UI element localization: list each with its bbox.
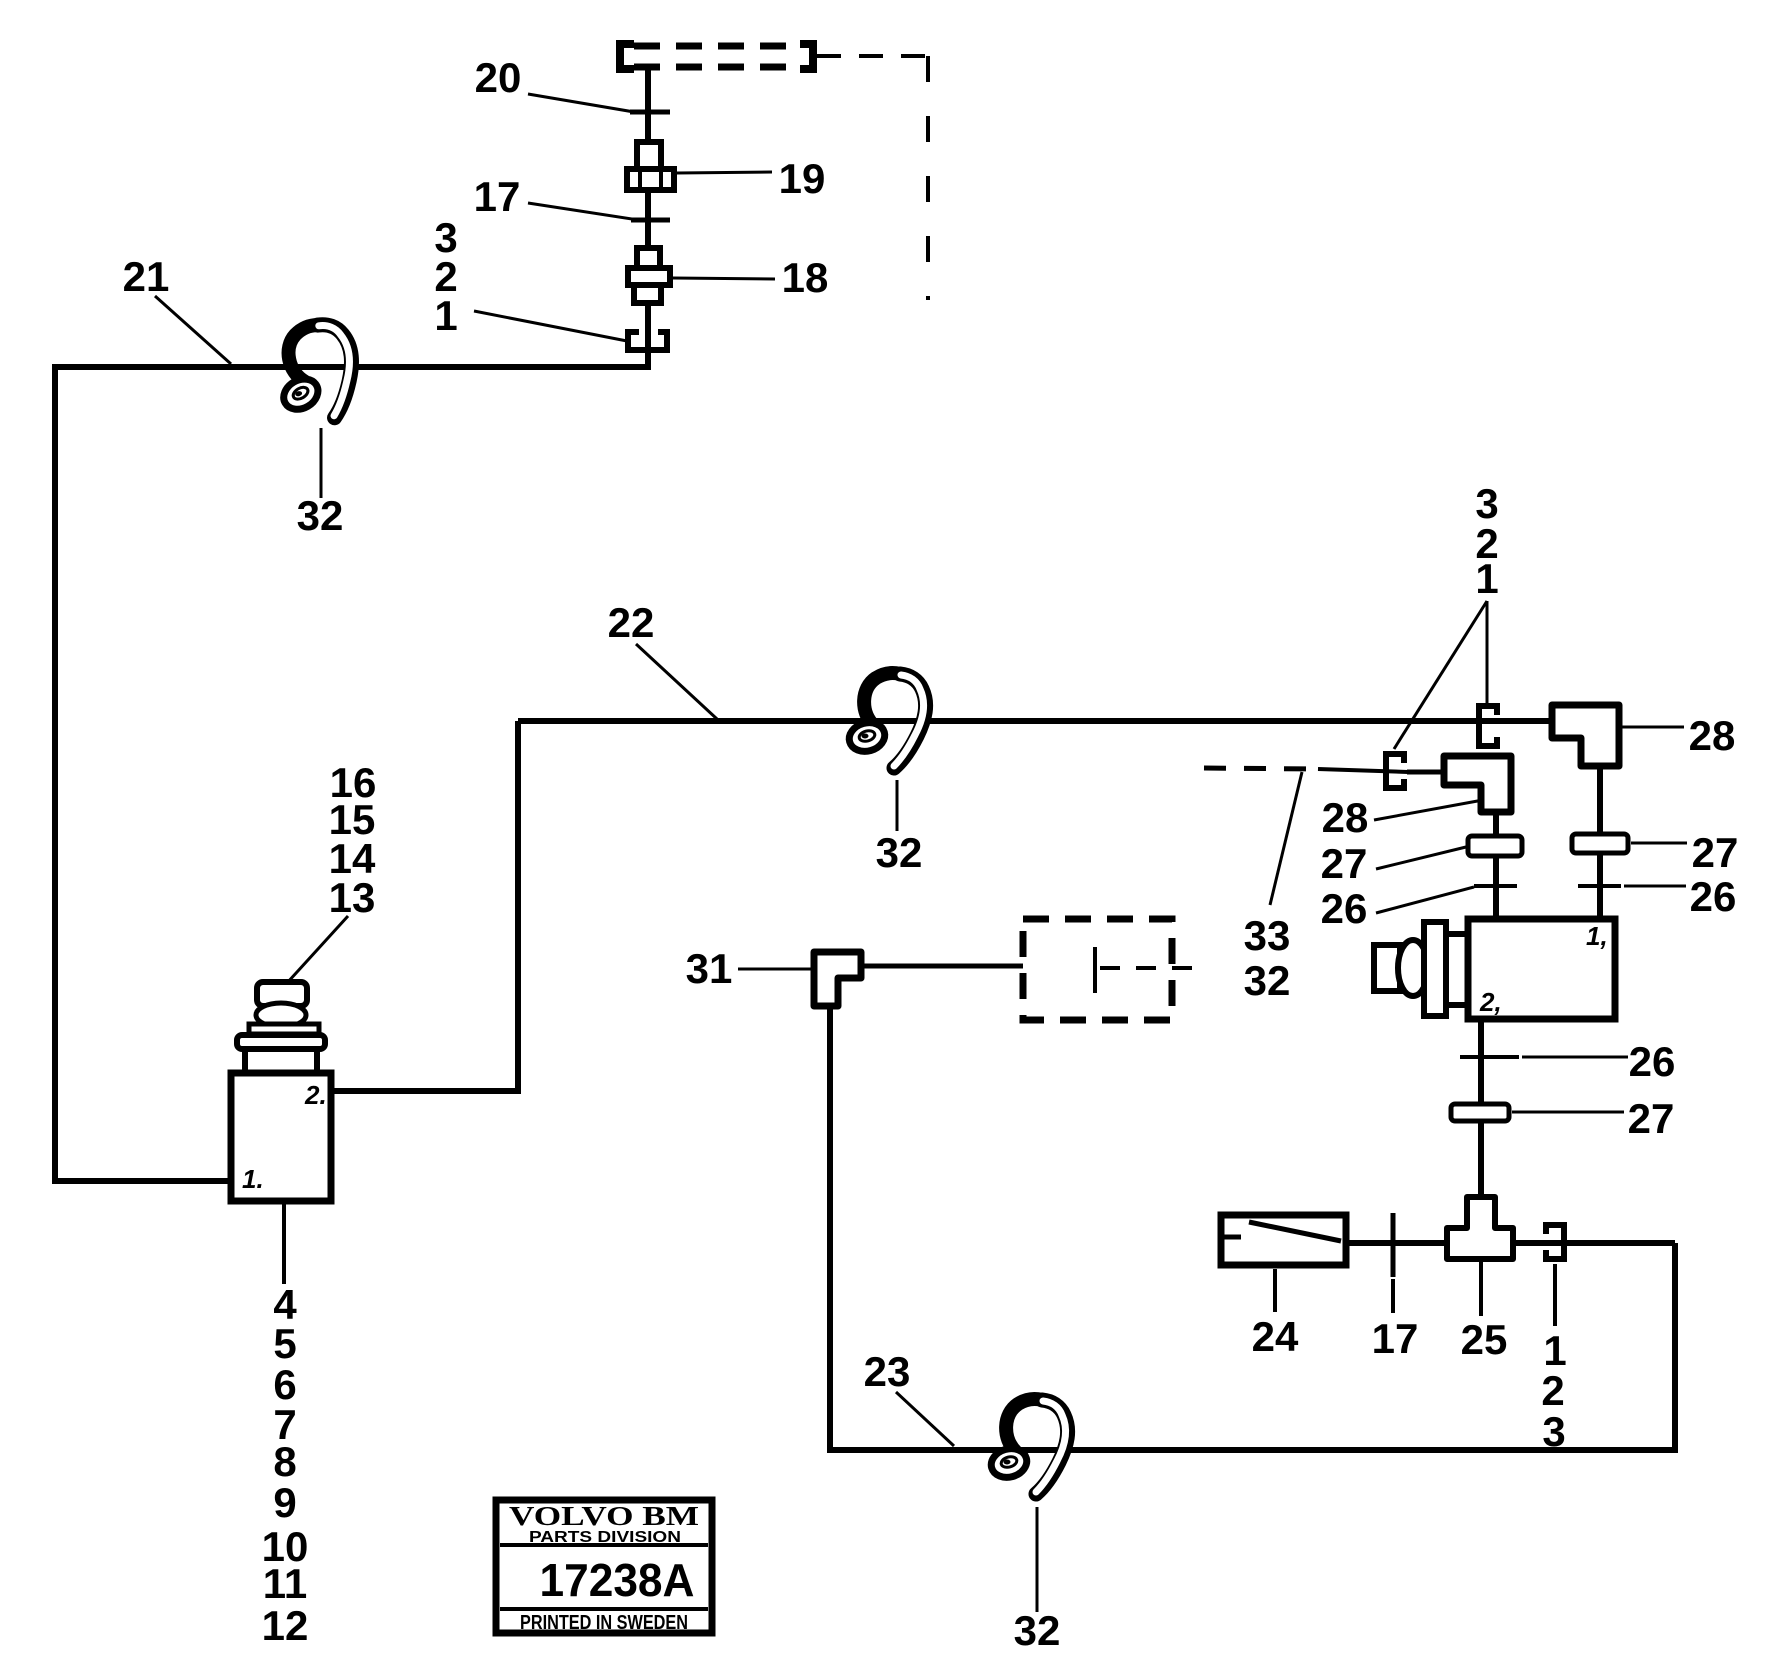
leader 17 <box>528 203 645 221</box>
svg-text:2.: 2. <box>304 1080 327 1110</box>
tick part 17 <box>631 218 670 223</box>
fitting 19 <box>627 142 674 190</box>
svg-text:26: 26 <box>1629 1038 1676 1085</box>
svg-text:1: 1 <box>434 292 457 339</box>
dashed component (hidden part) top <box>620 44 813 69</box>
reservoir body <box>231 1073 331 1201</box>
svg-text:27: 27 <box>1692 829 1739 876</box>
svg-text:21: 21 <box>123 253 170 300</box>
valve body <box>1468 919 1615 1019</box>
svg-text:1.: 1. <box>242 1164 264 1194</box>
ball nipple <box>1398 940 1428 996</box>
switch 24 <box>1221 1215 1346 1265</box>
leader 26 mid <box>1522 1056 1628 1059</box>
leader 25 <box>1479 1261 1483 1316</box>
leader 13 <box>287 916 348 983</box>
leader 23 <box>896 1392 954 1446</box>
svg-text:2: 2 <box>1541 1367 1564 1414</box>
svg-text:32: 32 <box>297 492 344 539</box>
tee 25 <box>1447 1197 1513 1259</box>
svg-text:3: 3 <box>1542 1408 1565 1455</box>
tick 26 left <box>1474 884 1517 888</box>
leader 22 <box>636 644 717 719</box>
dashed pipe 33 <box>1204 768 1408 772</box>
leader 26 right <box>1624 885 1686 888</box>
tick 26 mid <box>1460 1055 1519 1059</box>
plate flange <box>1424 922 1446 1016</box>
svg-text:28: 28 <box>1689 712 1736 759</box>
svg-text:17: 17 <box>474 173 521 220</box>
leader 4 <box>282 1203 286 1284</box>
svg-text:32: 32 <box>1244 957 1291 1004</box>
cap 13 <box>257 982 307 1006</box>
svg-text:1: 1 <box>1475 555 1498 602</box>
dashed line to right and down <box>817 56 928 300</box>
ball 14 <box>256 1003 306 1027</box>
clamp 32 (first) <box>265 318 365 429</box>
leader 27 left <box>1376 847 1466 869</box>
svg-text:31: 31 <box>686 945 733 992</box>
elbow 31 <box>814 952 861 1006</box>
clamp 32 (bottom) <box>988 1399 1068 1494</box>
tick part 20 <box>630 110 670 115</box>
pipe reservoir to riser <box>331 721 518 1091</box>
svg-text:24: 24 <box>1252 1313 1299 1360</box>
grommet 27 left <box>1468 836 1522 856</box>
cap nut <box>1374 945 1400 991</box>
svg-text:28: 28 <box>1322 794 1369 841</box>
pipe 22 <box>518 718 1553 724</box>
wire body bottom down <box>1478 1019 1484 1199</box>
leader 1 fork vertical <box>1486 601 1489 703</box>
wire elbow28L down <box>1493 812 1499 921</box>
grommet 27 right <box>1572 834 1628 853</box>
svg-text:32: 32 <box>876 829 923 876</box>
leader 19 <box>677 172 772 173</box>
leader 21 <box>155 296 231 364</box>
svg-text:1,: 1, <box>1586 921 1608 951</box>
pipe 21 <box>55 353 648 1181</box>
coupling 1 lower (C open right) <box>1383 751 1407 791</box>
leader 1 (top) <box>474 311 627 341</box>
grommet 27 mid <box>1451 1104 1509 1121</box>
svg-text:PRINTED IN SWEDEN: PRINTED IN SWEDEN <box>520 1612 688 1634</box>
leader 18 <box>673 278 775 279</box>
leader 32 (first) <box>320 428 323 498</box>
coupling 1 (cup, open top) <box>625 329 670 353</box>
svg-text:2,: 2, <box>1479 987 1502 1017</box>
clamp 32 (second) <box>846 673 926 768</box>
wire 24 to tee <box>1346 1240 1447 1246</box>
svg-text:27: 27 <box>1321 840 1368 887</box>
svg-text:PARTS DIVISION: PARTS DIVISION <box>529 1529 681 1546</box>
svg-text:5: 5 <box>273 1320 296 1367</box>
svg-text:17238A: 17238A <box>540 1554 695 1606</box>
svg-text:22: 22 <box>608 599 655 646</box>
dashed component (hidden) middle <box>1023 919 1205 1020</box>
leader 27 mid <box>1512 1111 1624 1114</box>
tick 26 right <box>1578 884 1621 888</box>
leader 27 right <box>1631 842 1687 845</box>
svg-text:VOLVO BM: VOLVO BM <box>509 1501 699 1531</box>
wire vertical pipe top <box>645 69 651 367</box>
svg-text:12: 12 <box>262 1602 309 1649</box>
neck <box>245 1049 317 1073</box>
svg-text:9: 9 <box>273 1479 296 1526</box>
svg-text:23: 23 <box>864 1348 911 1395</box>
leader 17 bottom <box>1391 1279 1395 1313</box>
leader 32 bottom <box>1036 1507 1039 1612</box>
svg-text:33: 33 <box>1244 912 1291 959</box>
svg-text:32: 32 <box>1014 1607 1061 1654</box>
coupling 1 bottom (C open left) <box>1543 1222 1567 1262</box>
leader 33/32 <box>1270 772 1302 905</box>
elbow 28 right <box>1552 705 1619 766</box>
neck sleeve <box>1446 934 1468 1005</box>
leader 32 (second) <box>896 780 899 831</box>
leader 20 <box>528 94 640 113</box>
svg-text:19: 19 <box>779 155 826 202</box>
leader 1 fork slant <box>1394 601 1487 749</box>
elbow 28 left <box>1444 756 1511 812</box>
leader 26 left <box>1376 887 1474 913</box>
leader 28 right <box>1622 726 1684 729</box>
flange 16 <box>237 1035 325 1049</box>
pipe 23 <box>830 1006 1675 1450</box>
wire tee to corner <box>1513 1240 1675 1246</box>
leader 31 <box>738 968 812 971</box>
svg-text:20: 20 <box>475 54 522 101</box>
svg-text:26: 26 <box>1690 873 1737 920</box>
svg-text:27: 27 <box>1628 1095 1675 1142</box>
svg-text:26: 26 <box>1321 885 1368 932</box>
svg-text:25: 25 <box>1461 1316 1508 1363</box>
svg-text:17: 17 <box>1372 1315 1419 1362</box>
wire elbow28R down <box>1597 766 1603 921</box>
tick 17 bottom <box>1391 1213 1396 1277</box>
leader 24 <box>1273 1269 1277 1312</box>
svg-text:13: 13 <box>329 874 376 921</box>
plate 15 <box>249 1024 319 1034</box>
wire C to elbow <box>1407 770 1448 775</box>
wire 31 to dashed box <box>861 964 1023 969</box>
svg-text:18: 18 <box>782 254 829 301</box>
svg-text:11: 11 <box>263 1560 307 1607</box>
fitting 18 <box>628 248 670 303</box>
coupling 1 upper (C open right) <box>1476 703 1500 749</box>
leader 1 2 3 bottom <box>1553 1264 1557 1326</box>
svg-text:8: 8 <box>273 1438 296 1485</box>
leader 28 left <box>1374 800 1483 820</box>
